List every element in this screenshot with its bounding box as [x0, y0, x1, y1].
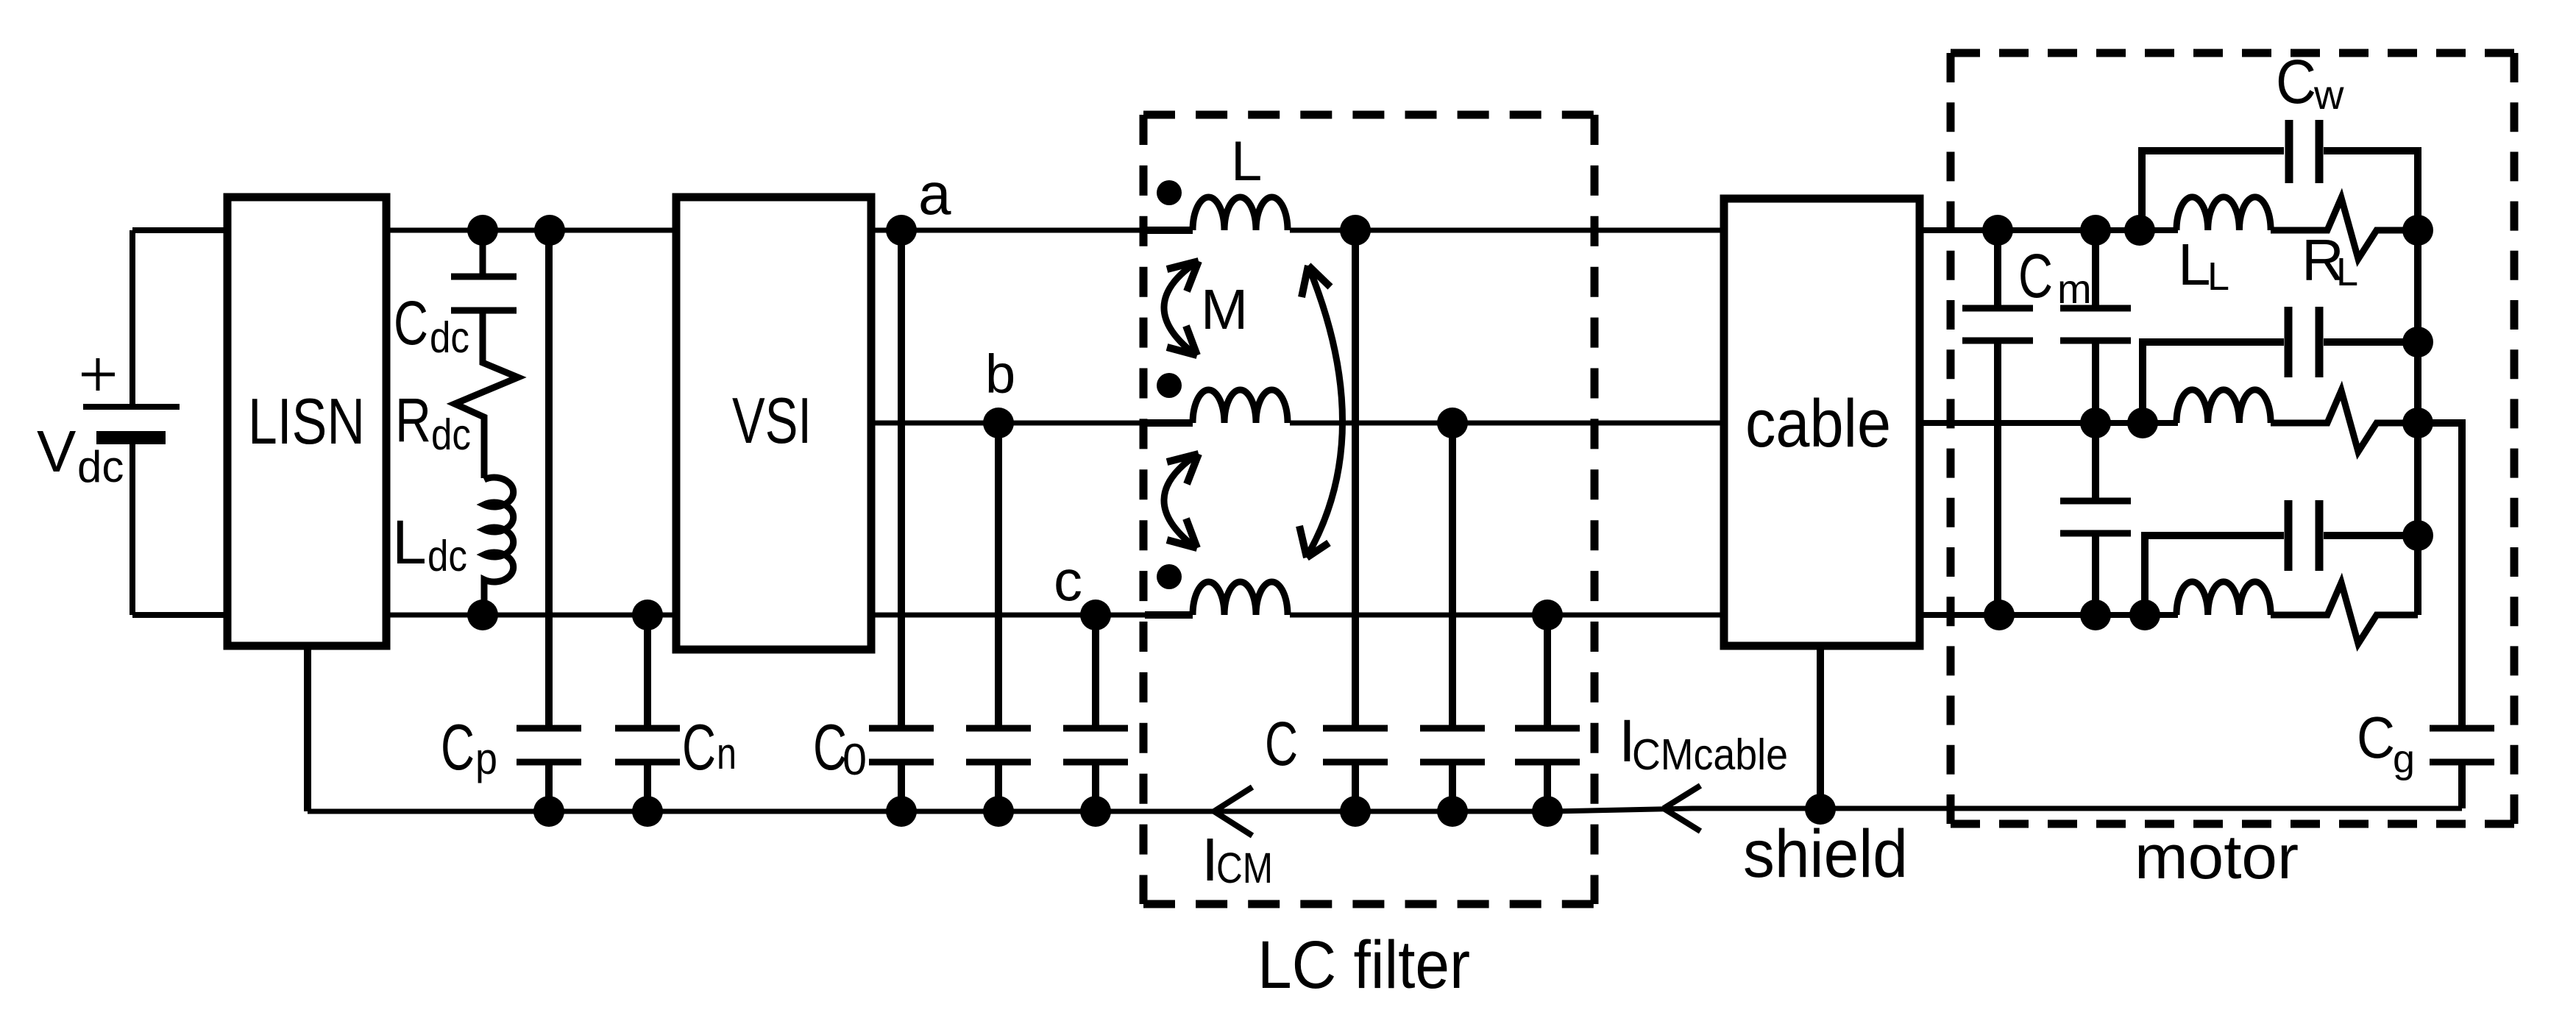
current arrow ICM: [1214, 787, 1252, 836]
svg-text:g: g: [2393, 737, 2415, 781]
wire: stub into Lb: [1145, 419, 1193, 427]
svg-text:CMcable: CMcable: [1632, 730, 1788, 779]
resistor Rdc: [455, 313, 518, 478]
node Cb ground: [1437, 796, 1468, 827]
svg-text:0: 0: [842, 735, 867, 784]
node a: capacitor C0 lead: [898, 230, 905, 725]
svg-text:M: M: [1201, 278, 1248, 341]
wire: battery top to LISN: [132, 227, 227, 233]
current arrow ICMcable: [1664, 786, 1700, 831]
node motor phase a output: [2402, 215, 2433, 246]
node Cp ground: [533, 796, 564, 827]
node C0b ground: [983, 796, 1014, 827]
node b: [983, 408, 1014, 438]
node La output: [1340, 215, 1371, 246]
node b: capacitor C0 lead: [995, 423, 1002, 725]
svg-text:C: C: [1265, 709, 1298, 778]
winding capacitor b-c right lead: [2324, 532, 2418, 539]
node Cm1 top: [1982, 215, 2013, 246]
winding capacitor b-c: [2288, 500, 2319, 571]
node Ca ground: [1340, 796, 1371, 827]
coupling arrow M between La and Lc (large): [1307, 268, 1343, 555]
capacitor Cg bottom lead: [2458, 765, 2466, 808]
SECTION:RIGHT: [1724, 53, 2514, 824]
node Cp top junction: [534, 215, 565, 246]
svg-text:w: w: [2313, 71, 2344, 118]
coupling arrow M between Lb and Lc: [1164, 455, 1196, 547]
svg-text:c: c: [1054, 548, 1082, 613]
capacitor Cm1 (phase a to phase c) top lead: [1994, 230, 2001, 305]
wire: battery bottom to LISN: [132, 612, 227, 618]
resistor RL phase a: [2271, 198, 2418, 259]
capacitor Cg top lead: [2418, 423, 2462, 725]
svg-text:C: C: [682, 711, 716, 783]
wire: phase c cable to motor: [1920, 612, 2178, 618]
svg-text:m: m: [2057, 266, 2092, 312]
node C0c ground: [1080, 796, 1111, 827]
node Cm1 bottom: [1984, 600, 2015, 630]
polarity dot Lc: [1157, 564, 1182, 589]
wire: phase b LC filter to cable: [1290, 421, 1724, 426]
svg-text:L: L: [2178, 232, 2211, 297]
wire: stub into La: [1145, 227, 1193, 234]
node winding cap b-c on bus: [2402, 520, 2433, 551]
wire: phase c VSI to LC filter: [871, 613, 1190, 618]
SECTION:MIDDLE: [676, 197, 1190, 811]
capacitor C0 phase a: [869, 728, 934, 762]
winding capacitor a-b right lead: [2324, 338, 2418, 346]
inductor L phase a: [1193, 197, 1288, 230]
wire: phase a VSI to LC filter: [871, 228, 1190, 233]
svg-text:L: L: [1231, 130, 1262, 193]
svg-text:C: C: [441, 711, 475, 783]
capacitor Cp: [517, 728, 581, 762]
wire: phase a cable to motor: [1920, 227, 2178, 233]
inductor L phase b: [1193, 390, 1288, 423]
svg-text:LC filter: LC filter: [1257, 928, 1470, 1003]
node motor phase a input: [2124, 215, 2155, 246]
node Cc ground: [1532, 796, 1563, 827]
node Cn junction: [632, 600, 663, 630]
inductor L phase c: [1193, 582, 1288, 615]
node c: capacitor C0 lead: [1092, 615, 1099, 725]
capacitor Cm2 bottom lead: [2092, 344, 2099, 423]
capacitor Cm1 bottom lead: [1994, 344, 2001, 615]
node motor phase b output: [2402, 408, 2433, 438]
inductor LL phase b: [2176, 390, 2271, 423]
svg-text:V: V: [37, 419, 77, 484]
node a: [886, 215, 917, 246]
resistor RL phase c: [2271, 583, 2418, 644]
wire: Cdc top lead: [480, 230, 486, 274]
capacitor C phase a: [1323, 728, 1388, 762]
wire: dc+ rail LISN to VSI: [386, 228, 676, 233]
wire: battery positive lead: [129, 230, 135, 407]
battery plus sign: [82, 358, 115, 391]
node Cm3 bottom: [2080, 600, 2111, 630]
svg-text:L: L: [2207, 255, 2229, 299]
capacitor Cn: [615, 728, 680, 762]
VSI box: [676, 197, 871, 650]
node Ldc bottom junction: [467, 600, 498, 630]
node winding cap a-b on bus: [2402, 327, 2433, 357]
node motor phase c input: [2129, 600, 2160, 630]
cable box: [1724, 199, 1920, 646]
capacitor Cdc: [451, 277, 517, 310]
node C0a ground: [886, 796, 917, 827]
capacitor C phase b lead: [1449, 423, 1456, 725]
inductor LL phase a: [2176, 197, 2271, 230]
coupling arrow M between La and Lb: [1164, 263, 1196, 354]
node Cdc top junction: [467, 215, 498, 246]
svg-text:C: C: [2018, 241, 2053, 310]
svg-text:C: C: [394, 288, 428, 357]
svg-text:b: b: [985, 344, 1015, 405]
battery V_dc short plate: [96, 431, 166, 444]
polarity dot La: [1157, 180, 1182, 205]
svg-text:R: R: [395, 385, 431, 455]
node Cm2 top: [2080, 215, 2111, 246]
svg-text:motor: motor: [2135, 822, 2299, 892]
SECTION:LEFT: [82, 197, 2462, 811]
capacitor C phase b: [1420, 728, 1485, 762]
wire: dc- rail LISN to VSI: [386, 613, 676, 618]
wire: stub into Lc: [1145, 611, 1193, 619]
capacitor Cm2: [2060, 308, 2131, 341]
capacitor C phase a lead: [1352, 230, 1359, 725]
battery V_dc long plate: [83, 404, 180, 410]
polarity dot Lb: [1157, 373, 1182, 398]
svg-text:L: L: [392, 508, 427, 577]
capacitor Cw loop wires: [2142, 151, 2418, 230]
node c: [1080, 600, 1111, 630]
node Lc output: [1532, 600, 1563, 630]
resistor RL phase b: [2271, 391, 2418, 452]
wire: battery negative lead: [129, 438, 135, 615]
svg-text:dc: dc: [77, 442, 124, 491]
node shield ground: [1805, 794, 1836, 825]
capacitor Cp ground lead: [545, 765, 553, 811]
capacitor C0 phase c: [1063, 728, 1128, 762]
winding capacitor a-b left lead: [2143, 342, 2284, 423]
capacitor Cm2 (phase a to phase b) top lead: [2092, 230, 2099, 305]
LC filter dashed box: [1143, 111, 1594, 119]
wire: LISN ground stub: [304, 646, 311, 811]
capacitor C0 phase b: [966, 728, 1031, 762]
svg-text:C: C: [2357, 705, 2395, 770]
svg-text:dc: dc: [427, 532, 467, 580]
svg-text:CM: CM: [1216, 844, 1273, 892]
capacitor Cm1: [1962, 308, 2033, 341]
capacitor Cm3: [2060, 501, 2131, 533]
capacitor Cm3 bottom lead: [2092, 536, 2099, 615]
svg-text:n: n: [717, 729, 737, 778]
node Lb output: [1437, 408, 1468, 438]
ground bus: [308, 808, 2462, 811]
inductor Ldc: [484, 477, 514, 615]
wire: cable shield stub: [1817, 646, 1824, 811]
winding capacitor b-c left lead: [2145, 536, 2284, 615]
svg-text:LISN: LISN: [248, 385, 365, 458]
LISN box: [227, 197, 386, 646]
motor neutral bus: [2414, 230, 2421, 615]
svg-text:dc: dc: [431, 410, 471, 459]
capacitor Cw: [2289, 120, 2319, 183]
capacitor Cg: [2430, 728, 2494, 762]
svg-text:cable: cable: [1745, 386, 1891, 461]
capacitor Cn ground lead: [644, 765, 651, 811]
capacitor Cm3 (phase b to phase c) top lead: [2092, 423, 2099, 498]
svg-text:C: C: [2276, 47, 2316, 116]
capacitor Cp lead from dc+: [545, 230, 553, 725]
svg-text:dc: dc: [430, 313, 469, 362]
wire: phase b cable to motor: [1920, 420, 2178, 426]
capacitor Cn lead from dc-: [644, 615, 651, 725]
node Cm2-Cm3 junction: [2080, 408, 2111, 438]
wire: phase c LC filter to cable: [1290, 613, 1724, 618]
wire: phase a LC filter to cable: [1290, 228, 1724, 233]
svg-text:p: p: [475, 734, 497, 783]
svg-text:L: L: [2336, 250, 2358, 294]
svg-text:shield: shield: [1743, 817, 1908, 892]
wire: phase b VSI to LC filter: [871, 421, 1190, 426]
capacitor C phase c lead: [1544, 615, 1551, 725]
SECTION:DOTS: [467, 215, 2433, 827]
node Cn ground: [632, 796, 663, 827]
capacitor C phase c: [1515, 728, 1580, 762]
SECTION:FILTER: [1143, 115, 1724, 904]
svg-text:VSI: VSI: [732, 384, 812, 457]
winding capacitor a-b: [2288, 307, 2319, 377]
motor dashed box: [1951, 49, 2514, 57]
node motor phase b input: [2127, 408, 2158, 438]
inductor LL phase c: [2176, 582, 2271, 615]
svg-text:a: a: [918, 161, 951, 227]
